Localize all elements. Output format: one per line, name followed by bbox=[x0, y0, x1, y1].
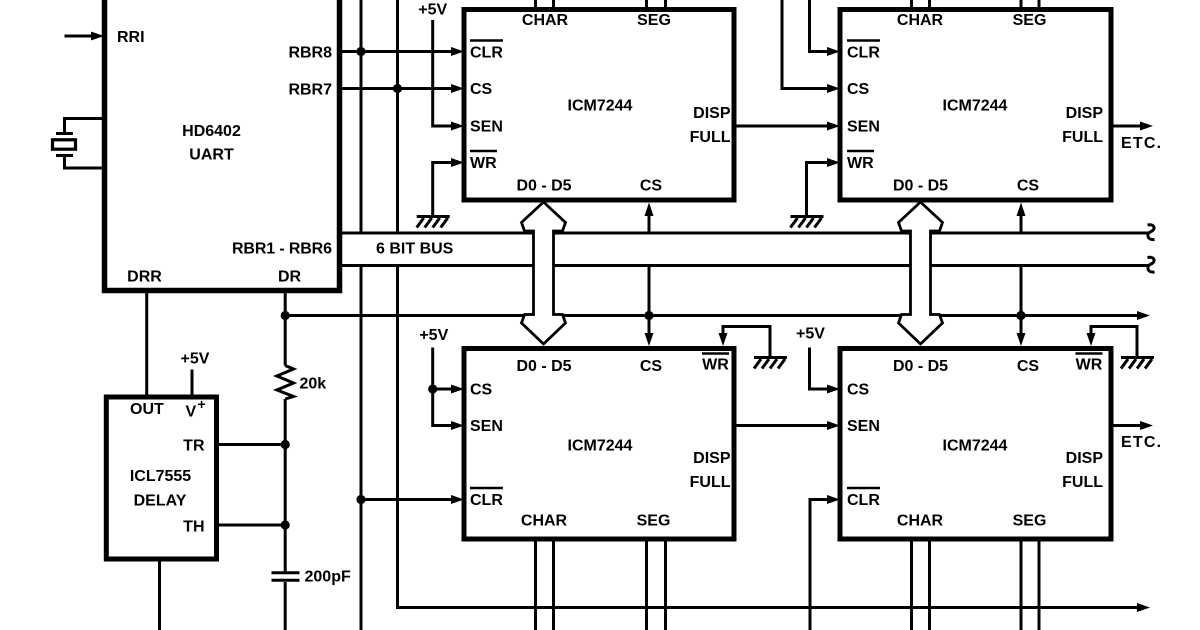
wire RRI input bbox=[65, 35, 94, 38]
svg-text:SEN: SEN bbox=[470, 119, 503, 136]
wire bus2 down to node (U4 CS) bbox=[648, 266, 651, 316]
svg-text:+5V: +5V bbox=[181, 351, 210, 368]
bus arrow left (D0-D5 U2/U4) bbox=[522, 202, 566, 344]
svg-text:DISP: DISP bbox=[1066, 450, 1104, 467]
wire WR (U2) to ground bbox=[433, 163, 451, 216]
node TH bbox=[281, 520, 290, 529]
wire DISP FULL (U3) output bbox=[1111, 125, 1141, 128]
svg-text:FULL: FULL bbox=[1062, 474, 1103, 491]
svg-text:SEN: SEN bbox=[847, 119, 880, 136]
svg-text:SEN: SEN bbox=[470, 418, 503, 435]
svg-text:DISP: DISP bbox=[693, 450, 731, 467]
arrowhead up into CS bottom U3 bbox=[1017, 203, 1026, 217]
pin CHAR pair (U3) bbox=[912, 0, 930, 10]
svg-text:CS: CS bbox=[470, 382, 493, 399]
pin SEG pair (U2) bbox=[647, 0, 666, 10]
svg-text:RBR8: RBR8 bbox=[288, 45, 332, 62]
wire vertical net RBR8 column bbox=[360, 0, 363, 630]
arrowhead ETC top bbox=[1140, 122, 1153, 131]
ground (U5 WR) bbox=[1121, 358, 1154, 369]
bus break squiggle bottom bbox=[1148, 257, 1155, 272]
svg-text:WR: WR bbox=[1076, 357, 1103, 374]
wire bus2 down to node (U5 CS) bbox=[1020, 266, 1023, 316]
wire WR (U5) to ground bbox=[1091, 327, 1137, 357]
wire ICL7555 +5V stub bbox=[191, 370, 194, 398]
IC U1 HD6402 UART block bbox=[105, 0, 340, 291]
svg-text:D0 - D5: D0 - D5 bbox=[893, 178, 948, 195]
overline CLR U3 bbox=[847, 39, 880, 41]
svg-text:TR: TR bbox=[183, 438, 205, 455]
svg-text:TH: TH bbox=[183, 519, 204, 536]
wire +5V to CS and SEN (U4) bbox=[433, 348, 451, 426]
svg-text:SEG: SEG bbox=[1013, 513, 1047, 530]
IC U6 ICL7555 DELAY block bbox=[106, 397, 216, 559]
svg-text:SEG: SEG bbox=[637, 12, 671, 29]
arrowhead into SEN U2 bbox=[451, 122, 464, 131]
svg-text:20k: 20k bbox=[300, 376, 327, 393]
svg-text:OUT: OUT bbox=[130, 401, 164, 418]
overline CLR U4 bbox=[470, 487, 503, 489]
svg-text:RBR7: RBR7 bbox=[288, 82, 332, 99]
arrowhead into SEN U4 bbox=[451, 421, 464, 430]
wire node to resistor R1 top bbox=[284, 316, 287, 366]
wire vertical net RBR7 column with bottom run bbox=[398, 0, 1138, 608]
svg-text:CS: CS bbox=[640, 178, 663, 195]
svg-text:DISP: DISP bbox=[1066, 105, 1104, 122]
wire WR (U4) to ground bbox=[723, 327, 770, 357]
svg-text:HD6402: HD6402 bbox=[182, 123, 241, 140]
pin SEG pair (U3) bbox=[1021, 0, 1039, 10]
node CLR U4 bbox=[356, 495, 365, 504]
svg-text:CS: CS bbox=[470, 81, 493, 98]
wire capacitor C2 bottom bbox=[284, 582, 287, 630]
svg-text:ETC.: ETC. bbox=[1121, 434, 1162, 451]
pin SEG pair (U5) bbox=[1021, 540, 1039, 630]
IC U5 ICM7244 bottom-right block bbox=[840, 349, 1111, 540]
arrowhead into CLR U4 bbox=[451, 495, 464, 504]
U5 texts bbox=[847, 354, 1103, 530]
wire bus line 2 bbox=[340, 264, 1150, 267]
resistor R1 20k zigzag bbox=[277, 366, 294, 400]
svg-text:WR: WR bbox=[470, 155, 497, 172]
svg-text:CHAR: CHAR bbox=[521, 513, 568, 530]
wire ICL7555 bottom pin bbox=[158, 559, 161, 630]
wire CLR column (U3) bbox=[810, 0, 828, 52]
IC U4 ICM7244 bottom-left block bbox=[464, 349, 734, 540]
svg-text:SEG: SEG bbox=[1013, 12, 1047, 29]
svg-text:CHAR: CHAR bbox=[897, 12, 944, 29]
arrowhead into CS U3 bbox=[827, 84, 840, 93]
arrowhead into SEN U3 bbox=[827, 122, 840, 131]
svg-text:DELAY: DELAY bbox=[134, 493, 187, 510]
wire RBR7 to CS (U2) bbox=[340, 87, 452, 90]
svg-text:UART: UART bbox=[189, 147, 234, 164]
svg-text:DR: DR bbox=[278, 269, 302, 286]
ground (U4 WR) bbox=[754, 358, 787, 369]
svg-text:WR: WR bbox=[702, 357, 729, 374]
GROUND SYMBOLS bbox=[417, 217, 1154, 369]
arrowhead into WR U3 bbox=[827, 158, 840, 167]
svg-text:ETC.: ETC. bbox=[1121, 135, 1162, 152]
svg-text:ICM7244: ICM7244 bbox=[943, 438, 1008, 455]
svg-text:CHAR: CHAR bbox=[897, 513, 944, 530]
ground (U2 WR) bbox=[417, 217, 450, 228]
svg-text:CLR: CLR bbox=[470, 492, 503, 509]
svg-text:200pF: 200pF bbox=[305, 569, 351, 586]
svg-text:CS: CS bbox=[847, 81, 870, 98]
arrowhead into RRI bbox=[91, 32, 104, 41]
pin CHAR pair (U5) bbox=[912, 540, 930, 630]
svg-text:D0 - D5: D0 - D5 bbox=[893, 358, 948, 375]
wire DISP FULL (U4) to SEN (U5) bbox=[734, 424, 827, 427]
arrowhead DR line right end bbox=[1137, 311, 1150, 320]
pin CHAR pair (U2) bbox=[536, 0, 554, 10]
svg-text:CLR: CLR bbox=[847, 492, 880, 509]
U6 texts bbox=[130, 396, 206, 536]
arrowhead up into CS bottom U2 bbox=[645, 203, 654, 217]
svg-text:WR: WR bbox=[847, 155, 874, 172]
node RBR8/vertical bbox=[356, 47, 365, 56]
arrowhead down into CS top U4 bbox=[645, 333, 654, 346]
svg-text:+5V: +5V bbox=[419, 327, 448, 344]
wire DRR to ICL7555 OUT bbox=[145, 291, 148, 398]
U3 texts bbox=[847, 12, 1103, 195]
wire ICL7555 TH pin bbox=[217, 524, 286, 527]
svg-text:D0 - D5: D0 - D5 bbox=[516, 358, 571, 375]
U4 texts bbox=[470, 354, 731, 530]
wire +5V to SEN (U2) bbox=[433, 20, 451, 126]
overline WR U4 bbox=[702, 352, 729, 354]
arrowhead ETC bottom bbox=[1140, 421, 1153, 430]
svg-text:CLR: CLR bbox=[847, 45, 880, 62]
svg-text:V: V bbox=[186, 404, 197, 421]
wire node down to CS (U5) bbox=[1020, 316, 1023, 337]
svg-text:D0 - D5: D0 - D5 bbox=[516, 178, 571, 195]
arrowhead down into WR top U4 bbox=[719, 333, 728, 346]
arrowhead into SEN U5 bbox=[827, 421, 840, 430]
wire ICL7555 TR pin bbox=[217, 443, 286, 446]
svg-text:+: + bbox=[198, 396, 206, 412]
arrowhead down into WR top U5 bbox=[1087, 333, 1096, 346]
arrowhead into CS U5 bbox=[827, 385, 840, 394]
overline WR U3 bbox=[847, 150, 874, 152]
wire CS up arrow stem (U2) bbox=[648, 216, 651, 233]
svg-text:CS: CS bbox=[1017, 178, 1040, 195]
overline CLR U5 bbox=[847, 487, 880, 489]
svg-text:ICM7244: ICM7244 bbox=[568, 98, 633, 115]
wire DISP FULL (U2) to SEN (U3) bbox=[734, 125, 827, 128]
svg-text:FULL: FULL bbox=[690, 129, 731, 146]
ground (U3 WR) bbox=[791, 217, 824, 228]
arrowhead into CS U4 bbox=[451, 385, 464, 394]
svg-text:ICM7244: ICM7244 bbox=[943, 98, 1008, 115]
svg-text:+5V: +5V bbox=[796, 326, 825, 343]
svg-text:ICM7244: ICM7244 bbox=[568, 438, 633, 455]
wire CLR feed (U4) bbox=[361, 498, 451, 501]
U2 texts bbox=[470, 12, 731, 195]
wire crystal top lead bbox=[65, 119, 108, 133]
arrowhead bottom line right end bbox=[1137, 603, 1150, 612]
svg-text:FULL: FULL bbox=[690, 474, 731, 491]
wire node down to CS (U4) bbox=[648, 316, 651, 337]
svg-text:RBR1 - RBR6: RBR1 - RBR6 bbox=[232, 241, 332, 258]
svg-text:CS: CS bbox=[1017, 358, 1040, 375]
svg-text:DISP: DISP bbox=[693, 105, 731, 122]
wire CLR feed (U5) bbox=[810, 500, 827, 630]
arrowhead into CLR U3 bbox=[827, 47, 840, 56]
wire resistor R1 bottom to capacitor C2 bbox=[284, 399, 287, 571]
IC U3 ICM7244 top-right block bbox=[840, 10, 1111, 201]
node TR bbox=[281, 440, 290, 449]
overline WR U5 bbox=[1076, 352, 1103, 354]
wire RBR8 to CLR (U2) bbox=[340, 50, 452, 53]
wire CS up arrow stem (U3) bbox=[1020, 216, 1023, 233]
capacitor C2 200pF plates bbox=[272, 573, 300, 581]
overline WR U2 bbox=[470, 150, 497, 152]
bus break squiggle top bbox=[1148, 225, 1155, 240]
node DR bbox=[281, 311, 290, 320]
wire WR (U3) to ground bbox=[807, 163, 828, 216]
IC U2 ICM7244 top-left block bbox=[464, 10, 734, 201]
svg-text:CS: CS bbox=[847, 382, 870, 399]
arrowhead into CS U2 bbox=[451, 84, 464, 93]
node +5V/CS U4 bbox=[428, 384, 437, 393]
svg-text:CLR: CLR bbox=[470, 45, 503, 62]
node RBR7/vertical bbox=[393, 84, 402, 93]
wire +5V to CS (U5) bbox=[810, 348, 828, 390]
wire bus line 1 bbox=[340, 232, 1150, 235]
wire DR down to node bbox=[284, 291, 287, 316]
wire CS column (U3) bbox=[782, 0, 827, 89]
svg-text:CHAR: CHAR bbox=[522, 12, 569, 29]
arrowhead into CLR U5 bbox=[827, 495, 840, 504]
arrowhead into WR U2 bbox=[451, 158, 464, 167]
arrowhead down into CS top U5 bbox=[1017, 333, 1026, 346]
wire DISP FULL (U5) output bbox=[1111, 424, 1141, 427]
svg-text:SEN: SEN bbox=[847, 418, 880, 435]
wire crystal bottom lead bbox=[65, 157, 108, 169]
svg-text:SEG: SEG bbox=[637, 513, 671, 530]
svg-text:RRI: RRI bbox=[117, 29, 145, 46]
crystal Y1 bbox=[53, 134, 76, 156]
svg-text:ICL7555: ICL7555 bbox=[130, 468, 191, 485]
arrowhead into CLR U2 bbox=[451, 47, 464, 56]
node CS U4 bbox=[644, 311, 653, 320]
wire node to CS (U4 left pin) bbox=[433, 388, 451, 391]
BLOCKS bbox=[105, 0, 1112, 559]
svg-text:DRR: DRR bbox=[127, 269, 162, 286]
svg-text:CS: CS bbox=[640, 358, 663, 375]
svg-text:+5V: +5V bbox=[418, 2, 447, 19]
svg-text:6 BIT BUS: 6 BIT BUS bbox=[376, 241, 454, 258]
svg-text:FULL: FULL bbox=[1062, 129, 1103, 146]
bus arrow right (D0-D5 U3/U5) bbox=[899, 202, 943, 344]
pin CHAR pair (U4) bbox=[536, 540, 554, 630]
overline CLR U2 bbox=[470, 39, 503, 41]
node CS U5 bbox=[1016, 311, 1025, 320]
pin SEG pair (U4) bbox=[647, 540, 666, 630]
wire node line DR horizontal bbox=[285, 314, 1137, 317]
